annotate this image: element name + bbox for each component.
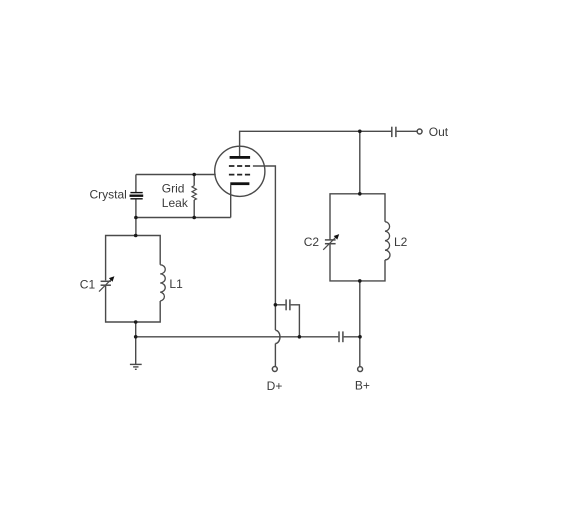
svg-text:C2: C2 [304,235,320,249]
svg-text:B+: B+ [355,379,370,393]
svg-text:Out: Out [429,125,449,139]
svg-text:D+: D+ [267,379,283,393]
svg-text:L1: L1 [169,277,183,291]
svg-text:C1: C1 [80,277,96,291]
svg-text:Leak: Leak [162,196,189,210]
svg-text:Grid: Grid [162,182,185,196]
svg-text:Crystal: Crystal [89,187,126,201]
svg-text:L2: L2 [394,235,408,249]
